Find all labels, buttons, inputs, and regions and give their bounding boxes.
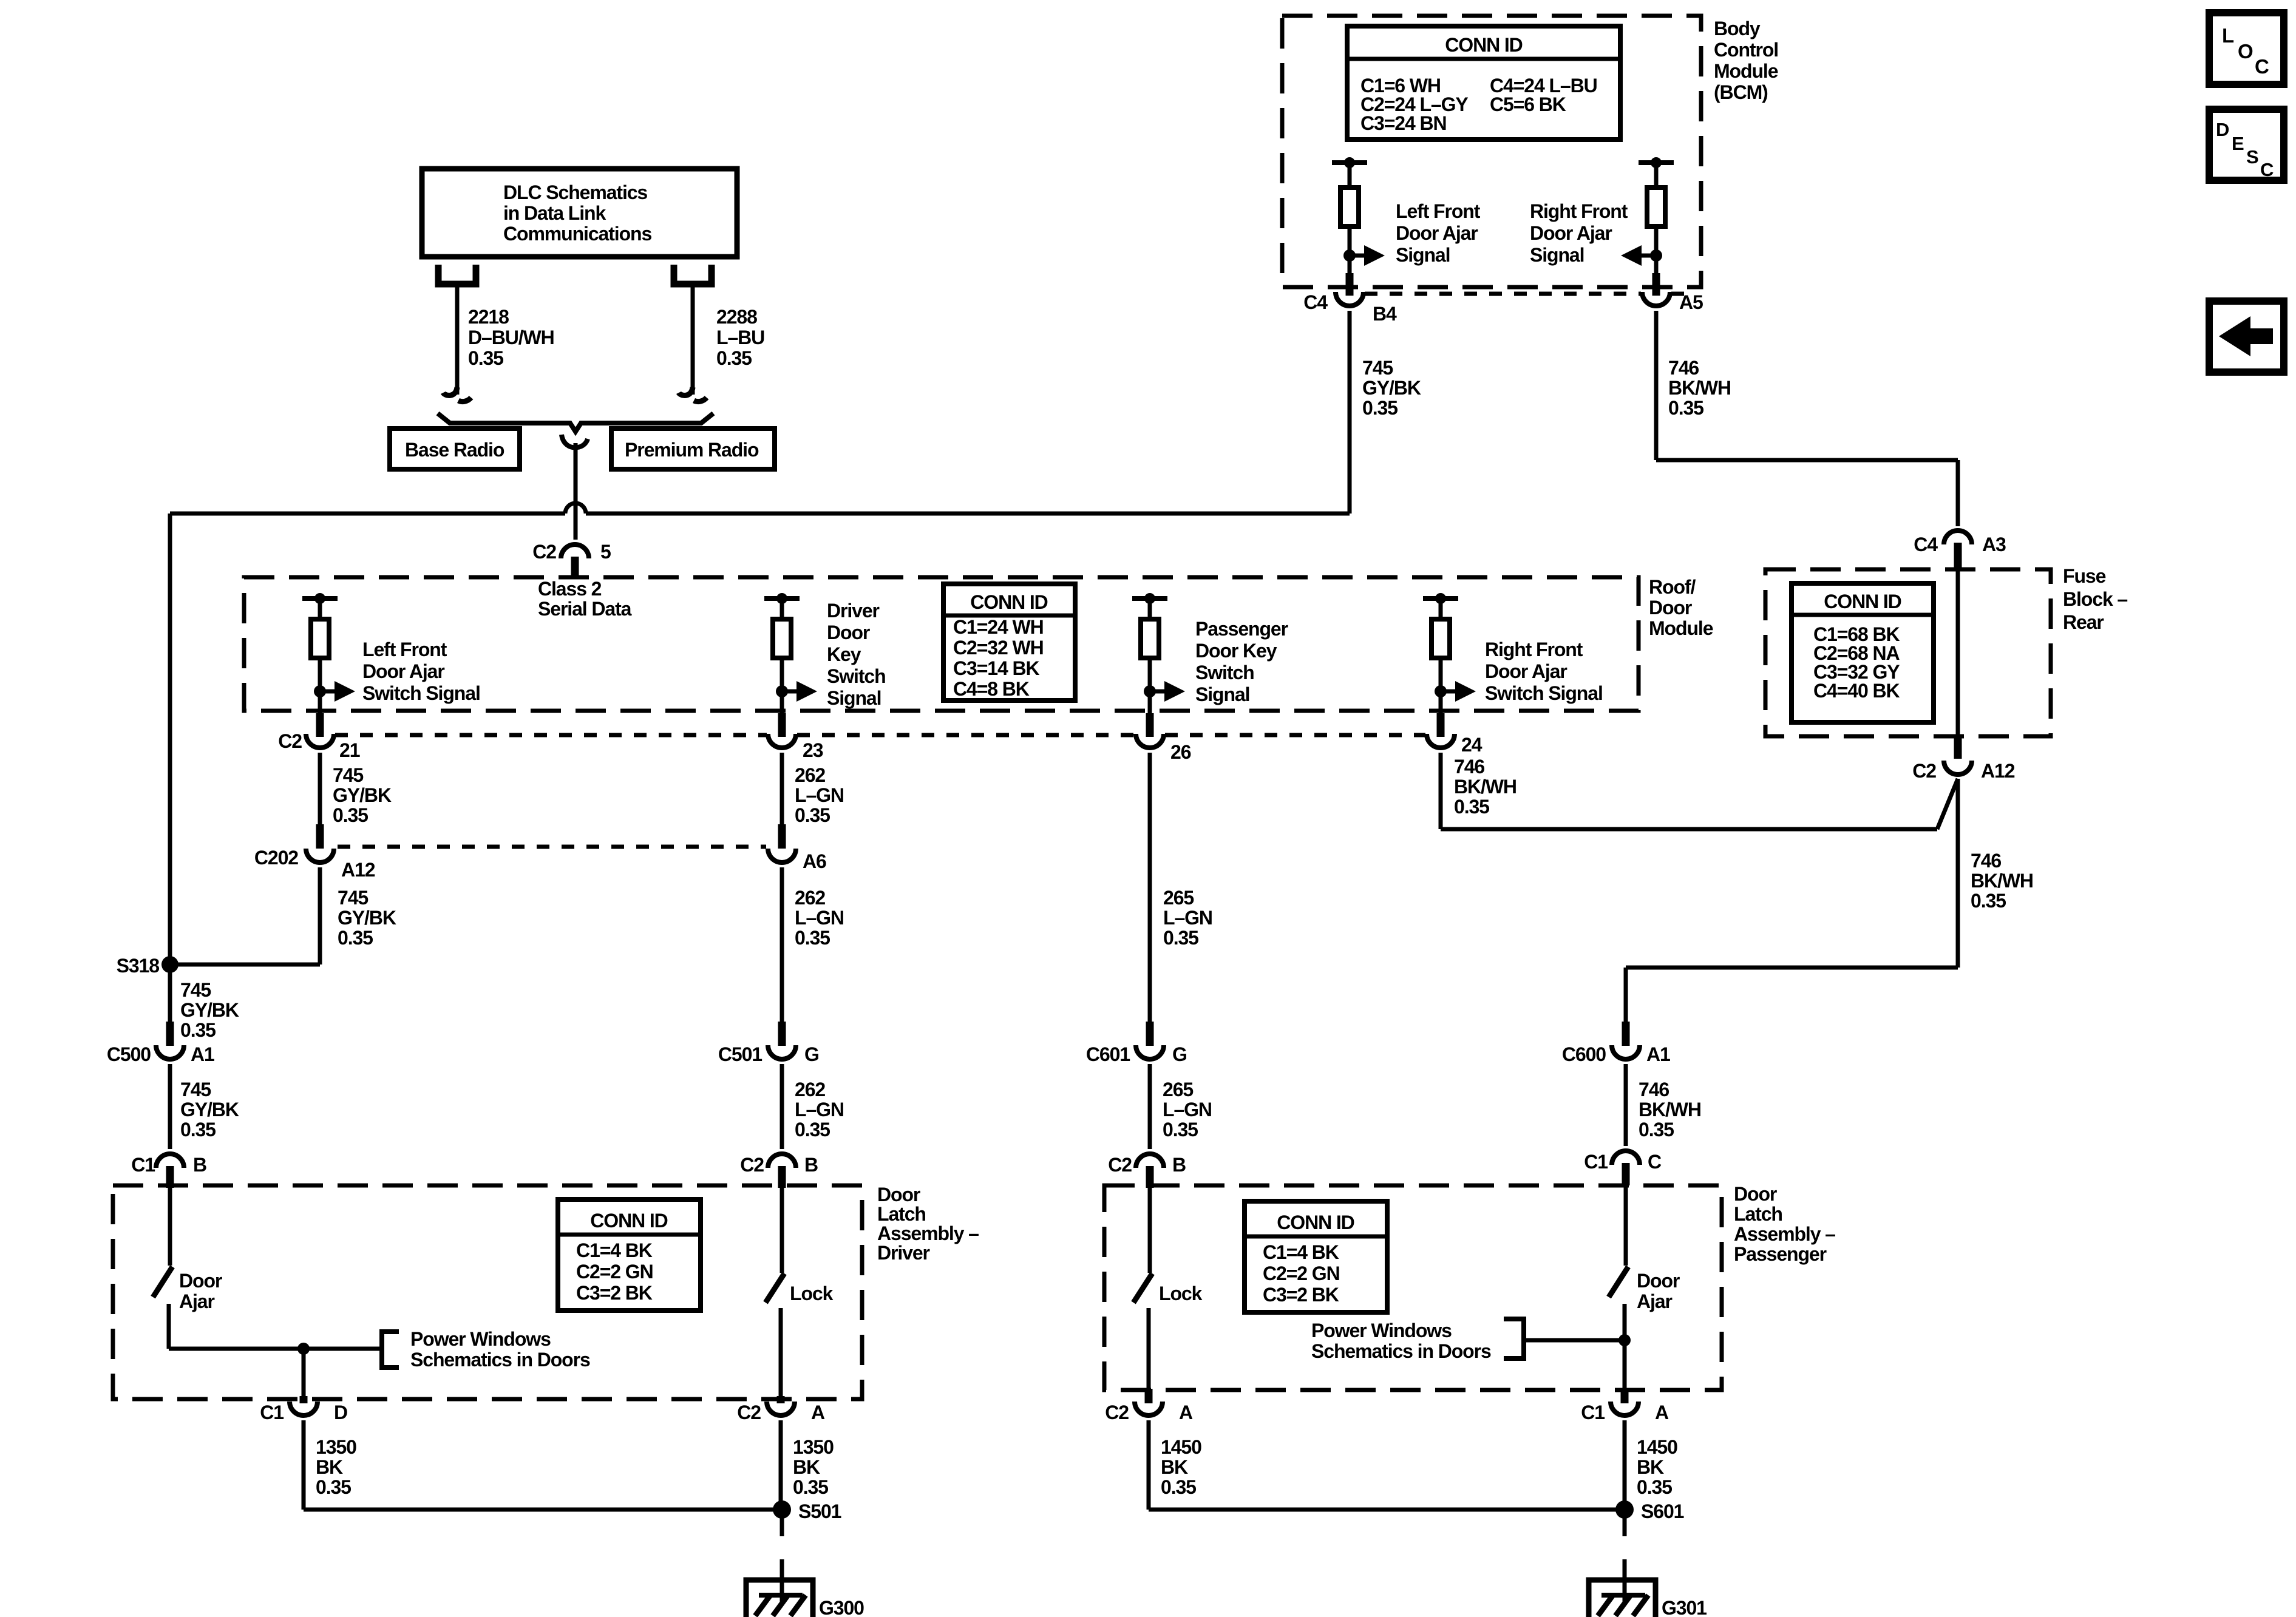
wire door ajar switch lower (passenger) bbox=[1623, 1304, 1627, 1390]
svg-text:Door Key: Door Key bbox=[1195, 640, 1277, 662]
connector C202 pin A6 bbox=[768, 849, 796, 863]
connector pin 23 (module) bbox=[768, 734, 796, 748]
svg-text:A12: A12 bbox=[341, 859, 375, 881]
svg-text:Door: Door bbox=[1649, 597, 1692, 619]
svg-text:Power Windows: Power Windows bbox=[1311, 1320, 1452, 1341]
svg-text:C2: C2 bbox=[737, 1402, 761, 1423]
svg-text:GY/BK: GY/BK bbox=[180, 1099, 239, 1120]
svg-text:Signal: Signal bbox=[827, 687, 881, 709]
svg-text:Door Ajar: Door Ajar bbox=[1396, 222, 1478, 244]
icon box DESC bbox=[2209, 109, 2284, 180]
wire passenger door key upper bbox=[1148, 598, 1152, 619]
svg-text:Driver: Driver bbox=[827, 600, 880, 622]
svg-text:0.35: 0.35 bbox=[716, 347, 752, 369]
svg-text:745: 745 bbox=[333, 764, 363, 786]
svg-text:Left Front: Left Front bbox=[362, 639, 447, 660]
svg-text:BK: BK bbox=[793, 1456, 820, 1478]
svg-text:O: O bbox=[2238, 40, 2253, 63]
wire end hook left bbox=[443, 387, 457, 395]
svg-text:0.35: 0.35 bbox=[468, 347, 503, 369]
svg-text:C1=4 BK: C1=4 BK bbox=[1263, 1241, 1339, 1263]
connector C2 pin A12 (fuse block) bbox=[1944, 761, 1972, 775]
module CONN ID header separator bbox=[943, 614, 1075, 618]
svg-text:746: 746 bbox=[1668, 357, 1699, 379]
connector pin 26 (module) bbox=[1136, 734, 1164, 748]
pin stub A1 (C600) bbox=[1622, 1022, 1630, 1046]
svg-text:Roof/: Roof/ bbox=[1649, 576, 1696, 598]
svg-text:A: A bbox=[811, 1402, 825, 1423]
connector C601 pin G bbox=[1136, 1045, 1164, 1059]
wire 745 bus drop to S318 bbox=[168, 514, 172, 964]
svg-text:0.35: 0.35 bbox=[795, 927, 830, 949]
svg-text:Serial Data: Serial Data bbox=[538, 598, 632, 620]
junction left front door ajar bbox=[314, 685, 326, 697]
svg-text:Door Ajar: Door Ajar bbox=[1485, 660, 1567, 682]
svg-text:21: 21 bbox=[339, 739, 360, 761]
svg-text:Right Front: Right Front bbox=[1485, 639, 1583, 660]
svg-text:CONN ID: CONN ID bbox=[970, 591, 1047, 613]
connector C4 pin A3 (fuse block) bbox=[1944, 531, 1972, 544]
svg-text:746: 746 bbox=[1454, 756, 1484, 778]
svg-text:Control: Control bbox=[1714, 39, 1778, 61]
svg-text:E: E bbox=[2232, 133, 2244, 154]
connector C2 pin A (driver latch) bbox=[767, 1402, 795, 1415]
svg-text:C1=4 BK: C1=4 BK bbox=[576, 1239, 653, 1261]
pin stub A1 (C500) bbox=[166, 1022, 174, 1046]
svg-text:Door Ajar: Door Ajar bbox=[362, 660, 444, 682]
wire 745 21 to C202 bbox=[318, 753, 322, 824]
wire right front door ajar lower bbox=[1439, 658, 1443, 713]
arrow right front door ajar switch signal bbox=[1441, 690, 1455, 694]
tee top right front door ajar branch bbox=[1423, 596, 1458, 601]
box Roof/Door Module dashed bbox=[244, 577, 1639, 711]
svg-text:BK/WH: BK/WH bbox=[1639, 1099, 1701, 1120]
switch blade Door Ajar (passenger) bbox=[1609, 1267, 1628, 1297]
resistor BCM left (door ajar pull-up) bbox=[1340, 188, 1359, 226]
wire 265 26 to C601 bbox=[1148, 753, 1152, 1022]
wire door ajar switch lower (driver) bbox=[167, 1304, 171, 1349]
svg-text:C600: C600 bbox=[1562, 1043, 1606, 1065]
ground G300 bbox=[746, 1580, 813, 1617]
connector pin 24 (module) bbox=[1427, 734, 1455, 748]
wire 745 bus right segment bbox=[586, 512, 1350, 516]
svg-text:23: 23 bbox=[803, 739, 823, 761]
svg-text:CONN ID: CONN ID bbox=[1824, 591, 1901, 612]
arrow Right Front Door Ajar Signal bbox=[1642, 254, 1656, 258]
svg-text:Signal: Signal bbox=[1530, 244, 1584, 266]
svg-text:Door: Door bbox=[1637, 1270, 1680, 1292]
svg-text:Right Front: Right Front bbox=[1530, 200, 1628, 222]
svg-text:L–GN: L–GN bbox=[795, 907, 844, 929]
svg-text:C2=2 GN: C2=2 GN bbox=[576, 1261, 653, 1283]
svg-text:BK/WH: BK/WH bbox=[1454, 776, 1517, 798]
svg-text:D: D bbox=[2216, 119, 2229, 140]
wire door ajar switch upper (driver) bbox=[168, 1185, 172, 1266]
svg-text:B: B bbox=[804, 1154, 818, 1176]
arrow driver door key switch signal bbox=[782, 690, 796, 694]
wire 745 bus riser to B4 bbox=[1348, 311, 1352, 514]
svg-text:C4=8 BK: C4=8 BK bbox=[953, 678, 1030, 700]
pin stub C2/5 bbox=[571, 557, 579, 576]
svg-text:C501: C501 bbox=[718, 1043, 762, 1065]
svg-text:B4: B4 bbox=[1373, 303, 1397, 325]
fuse CONN ID header separator bbox=[1792, 613, 1934, 617]
connector C202 pin A12 bbox=[306, 849, 334, 863]
box driver latch CONN ID bbox=[558, 1199, 701, 1310]
wire 265 C601 to C2/B bbox=[1148, 1064, 1152, 1149]
svg-text:C3=2 BK: C3=2 BK bbox=[1263, 1284, 1339, 1306]
connector C4 pin B4 (BCM) bbox=[1336, 292, 1364, 306]
BCM CONN ID header separator bbox=[1347, 57, 1620, 61]
svg-text:Door Ajar: Door Ajar bbox=[1530, 222, 1612, 244]
box fuse CONN ID bbox=[1792, 583, 1934, 722]
svg-text:Block –: Block – bbox=[2063, 588, 2127, 610]
resistor right front door ajar switch branch bbox=[1432, 619, 1450, 658]
svg-text:745: 745 bbox=[338, 887, 368, 909]
tee top passenger door key branch bbox=[1132, 596, 1167, 601]
svg-text:G300: G300 bbox=[819, 1597, 864, 1617]
connector C2 pin 21 (module) bbox=[306, 734, 334, 748]
svg-text:262: 262 bbox=[795, 887, 825, 909]
resistor BCM right (door ajar pull-up) bbox=[1647, 188, 1665, 226]
svg-text:745: 745 bbox=[1362, 357, 1393, 379]
box Fuse Block - Rear dashed bbox=[1765, 569, 2051, 736]
driver latch CONN ID header separator bbox=[558, 1233, 701, 1237]
wire 746 down to C4/A3 bbox=[1956, 460, 1960, 526]
connector bracket right (DLC lead 2288) bbox=[674, 265, 712, 284]
svg-text:Signal: Signal bbox=[1396, 244, 1450, 266]
icon box back arrow bbox=[2209, 301, 2284, 372]
pin stub B lock (driver latch) bbox=[778, 1166, 786, 1188]
svg-text:Body: Body bbox=[1714, 18, 1761, 39]
svg-text:A3: A3 bbox=[1982, 534, 2006, 555]
pin stub G (C601) bbox=[1146, 1022, 1154, 1046]
wire 1450 C2/A to S601 bbox=[1147, 1420, 1151, 1510]
svg-text:745: 745 bbox=[180, 979, 211, 1001]
svg-text:Power Windows: Power Windows bbox=[410, 1328, 551, 1350]
wire 2288 L-BU bbox=[691, 284, 695, 395]
wire 745 S318 to C500 bbox=[168, 964, 172, 1022]
connector C2 pin B (driver latch) bbox=[768, 1154, 796, 1168]
wire 745 S318 branch horizontal bbox=[170, 963, 320, 967]
pin stub 26 bbox=[1146, 713, 1154, 737]
pin stub A (C1 passenger) bbox=[1621, 1389, 1629, 1403]
svg-text:Door: Door bbox=[827, 622, 870, 643]
wire lock switch upper (driver) bbox=[780, 1188, 784, 1273]
svg-text:L–GN: L–GN bbox=[1163, 907, 1212, 929]
junction door ajar / power windows tap (passenger) bbox=[1618, 1334, 1631, 1346]
wire 1350 C1/D to S501 bbox=[302, 1420, 306, 1510]
wire S501 to ground lower bbox=[780, 1559, 784, 1602]
svg-text:BK: BK bbox=[1161, 1456, 1188, 1478]
svg-text:D: D bbox=[334, 1402, 347, 1423]
svg-text:Key: Key bbox=[827, 643, 861, 665]
svg-text:L–GN: L–GN bbox=[795, 1099, 844, 1120]
bracket power windows (passenger) bbox=[1504, 1319, 1524, 1358]
icon back arrow bbox=[2219, 316, 2273, 356]
svg-text:0.35: 0.35 bbox=[1362, 397, 1398, 419]
svg-text:0.35: 0.35 bbox=[180, 1019, 216, 1041]
wire 262 23 to A6 bbox=[780, 753, 784, 824]
svg-text:(BCM): (BCM) bbox=[1714, 81, 1768, 103]
svg-text:A12: A12 bbox=[1981, 760, 2015, 782]
wire 746 C600 to C1/C bbox=[1624, 1064, 1628, 1146]
pin stub A (C2 driver) bbox=[777, 1396, 785, 1403]
svg-text:26: 26 bbox=[1170, 741, 1191, 763]
svg-text:GY/BK: GY/BK bbox=[180, 999, 239, 1021]
svg-text:C601: C601 bbox=[1086, 1043, 1130, 1065]
svg-text:BK: BK bbox=[316, 1456, 343, 1478]
svg-text:C1=24 WH: C1=24 WH bbox=[953, 616, 1044, 638]
switch blade Door Ajar (driver) bbox=[153, 1267, 172, 1297]
tee top left BCM branch bbox=[1332, 160, 1367, 165]
svg-text:C2: C2 bbox=[1105, 1402, 1129, 1423]
wire radio to C2 pin 5 bbox=[574, 443, 578, 540]
wire BCM right branch lower bbox=[1654, 226, 1659, 273]
svg-text:Switch Signal: Switch Signal bbox=[1485, 682, 1603, 704]
wire end hook right bbox=[679, 387, 693, 395]
resistor left front door ajar switch branch bbox=[311, 619, 329, 658]
pin stub A12 (C202) bbox=[316, 824, 324, 849]
svg-text:Module: Module bbox=[1714, 60, 1778, 82]
svg-text:C4: C4 bbox=[1914, 534, 1938, 555]
svg-text:C3=24 BN: C3=24 BN bbox=[1360, 112, 1447, 134]
svg-text:Lock: Lock bbox=[1159, 1283, 1203, 1304]
svg-text:0.35: 0.35 bbox=[1668, 397, 1703, 419]
wire right front door ajar upper bbox=[1439, 598, 1443, 619]
wire left front door ajar lower bbox=[318, 658, 322, 713]
svg-text:Switch: Switch bbox=[827, 665, 886, 687]
pin stub A5 bbox=[1652, 273, 1660, 296]
svg-text:Communications: Communications bbox=[503, 223, 651, 245]
wire 262 A6 to C501 bbox=[780, 867, 784, 1022]
svg-text:C2: C2 bbox=[1912, 760, 1936, 782]
wire S501 to ground upper bbox=[780, 1517, 784, 1536]
svg-text:Schematics in Doors: Schematics in Doors bbox=[1311, 1340, 1491, 1362]
svg-text:262: 262 bbox=[795, 1079, 825, 1100]
svg-text:C5=6 BK: C5=6 BK bbox=[1490, 93, 1566, 115]
box Door Latch Assembly Driver dashed bbox=[113, 1185, 862, 1399]
wire BCM right branch upper bbox=[1654, 163, 1659, 188]
svg-text:746: 746 bbox=[1971, 850, 2001, 872]
svg-text:Passenger: Passenger bbox=[1734, 1243, 1827, 1265]
box passenger latch CONN ID bbox=[1245, 1201, 1387, 1312]
svg-text:0.35: 0.35 bbox=[1639, 1119, 1674, 1141]
svg-text:Assembly –: Assembly – bbox=[1734, 1223, 1835, 1245]
wire 746 down to C600 bbox=[1624, 968, 1628, 1022]
svg-text:265: 265 bbox=[1163, 1079, 1193, 1100]
svg-text:2218: 2218 bbox=[468, 306, 509, 328]
wire 746 from A5 down bbox=[1654, 311, 1659, 460]
brace center hook bbox=[562, 435, 588, 447]
svg-text:C: C bbox=[2255, 55, 2269, 78]
pin stub C (passenger latch) bbox=[1622, 1163, 1630, 1185]
connector C2 pin B (passenger latch) bbox=[1136, 1154, 1164, 1168]
svg-text:1450: 1450 bbox=[1161, 1436, 1201, 1458]
wire BCM left branch upper bbox=[1348, 163, 1352, 188]
connector C1 pin C (passenger latch) bbox=[1612, 1151, 1640, 1165]
svg-text:265: 265 bbox=[1163, 887, 1194, 909]
svg-text:in Data Link: in Data Link bbox=[503, 202, 606, 224]
pin stub D (C1 driver) bbox=[300, 1396, 308, 1403]
junction driver door key bbox=[776, 685, 788, 697]
wire to power windows tap (driver) bbox=[169, 1347, 382, 1351]
connector bracket left (DLC lead 2218) bbox=[438, 265, 476, 284]
junction door ajar / C1-D drop (driver) bbox=[297, 1343, 310, 1355]
svg-text:Lock: Lock bbox=[790, 1283, 834, 1304]
switch blade Lock (passenger) bbox=[1133, 1273, 1152, 1303]
wire lock switch lower (driver) bbox=[779, 1308, 783, 1399]
wire S601 to ground upper bbox=[1623, 1517, 1627, 1536]
switch blade Lock (driver) bbox=[766, 1273, 784, 1303]
wire 1450 C1/A to S601 bbox=[1623, 1420, 1627, 1510]
svg-text:Module: Module bbox=[1649, 617, 1713, 639]
svg-text:G: G bbox=[804, 1043, 819, 1065]
splice S601 bbox=[1615, 1500, 1634, 1519]
passenger latch CONN ID header separator bbox=[1245, 1235, 1387, 1239]
svg-text:CONN ID: CONN ID bbox=[590, 1210, 667, 1232]
svg-text:Rear: Rear bbox=[2063, 611, 2104, 633]
wire 745 C202 to S318 riser bbox=[318, 867, 322, 964]
svg-text:C3=2 BK: C3=2 BK bbox=[576, 1282, 653, 1304]
svg-text:L–BU: L–BU bbox=[716, 327, 764, 348]
svg-text:GY/BK: GY/BK bbox=[333, 784, 392, 806]
svg-text:C1: C1 bbox=[1584, 1151, 1608, 1173]
icon box LOC bbox=[2209, 13, 2284, 84]
svg-text:0.35: 0.35 bbox=[793, 1476, 828, 1498]
svg-text:GY/BK: GY/BK bbox=[338, 907, 396, 929]
svg-text:A1: A1 bbox=[1646, 1043, 1670, 1065]
wire driver door key lower bbox=[780, 658, 784, 713]
svg-text:Class 2: Class 2 bbox=[538, 578, 602, 600]
svg-text:C: C bbox=[1648, 1151, 1662, 1173]
splice S501 bbox=[773, 1500, 791, 1519]
connector C501 pin G bbox=[768, 1045, 796, 1059]
wire 745 C500 to C1/B bbox=[168, 1064, 172, 1149]
svg-text:746: 746 bbox=[1639, 1079, 1669, 1100]
svg-text:Ajar: Ajar bbox=[179, 1290, 214, 1312]
svg-text:S501: S501 bbox=[798, 1500, 841, 1522]
connector pin A5 (BCM) bbox=[1642, 292, 1670, 306]
box Premium Radio bbox=[611, 429, 775, 469]
svg-text:Door: Door bbox=[1734, 1183, 1777, 1205]
svg-text:C3=14 BK: C3=14 BK bbox=[953, 657, 1039, 679]
pin stub B (driver latch) bbox=[166, 1166, 174, 1188]
wire power windows tap (passenger) bbox=[1524, 1338, 1625, 1343]
wire lock switch lower (passenger) bbox=[1147, 1308, 1151, 1390]
svg-text:C1: C1 bbox=[260, 1402, 284, 1423]
wire drop to C1/D bbox=[302, 1349, 306, 1399]
svg-text:C4: C4 bbox=[1303, 291, 1328, 313]
svg-text:A5: A5 bbox=[1679, 291, 1703, 313]
svg-text:0.35: 0.35 bbox=[1637, 1476, 1672, 1498]
svg-text:BK: BK bbox=[1637, 1456, 1664, 1478]
pin stub A6 bbox=[778, 824, 786, 849]
svg-text:24: 24 bbox=[1461, 734, 1483, 756]
svg-text:745: 745 bbox=[180, 1079, 211, 1100]
wire 745 bus left segment bbox=[170, 512, 565, 516]
svg-text:S601: S601 bbox=[1641, 1500, 1684, 1522]
ground G301 bbox=[1589, 1580, 1656, 1617]
svg-text:G301: G301 bbox=[1662, 1597, 1707, 1617]
svg-text:A: A bbox=[1655, 1402, 1669, 1423]
bracket power windows (driver) bbox=[382, 1332, 399, 1368]
svg-text:Door: Door bbox=[877, 1184, 920, 1205]
pin stub A12 bbox=[1954, 736, 1962, 759]
splice S318 bbox=[161, 956, 178, 973]
svg-text:Left Front: Left Front bbox=[1396, 200, 1481, 222]
wire 746 horizontal to C600 bbox=[1626, 966, 1958, 970]
svg-text:1450: 1450 bbox=[1637, 1436, 1677, 1458]
wire 746 horizontal to A12 bbox=[1441, 827, 1937, 832]
svg-text:D–BU/WH: D–BU/WH bbox=[468, 327, 554, 348]
svg-text:C500: C500 bbox=[107, 1043, 151, 1065]
wire passenger door key lower bbox=[1148, 658, 1152, 713]
svg-text:Passenger: Passenger bbox=[1195, 618, 1288, 640]
wire 1350 to S501 bbox=[304, 1508, 781, 1512]
svg-text:0.35: 0.35 bbox=[1163, 927, 1198, 949]
svg-text:C2: C2 bbox=[532, 541, 556, 563]
box Body Control Module (BCM) dashed bbox=[1282, 16, 1701, 287]
wire S601 to ground lower bbox=[1623, 1559, 1627, 1602]
connector C600 pin A1 bbox=[1612, 1045, 1640, 1059]
svg-text:Premium Radio: Premium Radio bbox=[625, 439, 759, 461]
C202 connector face dotted row bbox=[338, 845, 766, 849]
svg-text:Base Radio: Base Radio bbox=[405, 439, 504, 461]
svg-text:Latch: Latch bbox=[877, 1203, 926, 1225]
svg-text:262: 262 bbox=[795, 764, 825, 786]
svg-text:B: B bbox=[193, 1154, 206, 1176]
resistor driver door key switch branch bbox=[773, 619, 791, 658]
svg-text:C2=32 WH: C2=32 WH bbox=[953, 637, 1044, 659]
box Base Radio bbox=[390, 429, 520, 469]
svg-text:Driver: Driver bbox=[877, 1242, 930, 1264]
wire driver door key upper bbox=[780, 598, 784, 619]
svg-text:C202: C202 bbox=[254, 847, 298, 869]
BCM connector face dotted row bbox=[1365, 292, 1641, 296]
svg-text:CONN ID: CONN ID bbox=[1277, 1212, 1354, 1233]
tee top left front door ajar branch bbox=[302, 596, 338, 601]
box Door Latch Assembly Passenger dashed bbox=[1104, 1185, 1722, 1390]
svg-text:0.35: 0.35 bbox=[338, 927, 373, 949]
wire 746 through fuse block bbox=[1956, 569, 1960, 736]
junction BCM right bbox=[1650, 249, 1662, 262]
svg-text:S: S bbox=[2246, 146, 2258, 168]
svg-text:C2: C2 bbox=[278, 730, 302, 752]
svg-text:L–GN: L–GN bbox=[795, 784, 844, 806]
svg-text:0.35: 0.35 bbox=[316, 1476, 351, 1498]
junction passenger door key bbox=[1144, 685, 1156, 697]
pin stub B lock (passenger latch) bbox=[1146, 1166, 1154, 1188]
wire 2218 D-BU/WH bbox=[455, 284, 460, 395]
wire 746 24 down bbox=[1439, 753, 1443, 829]
connector C2 pin 5 (radio) bbox=[561, 544, 589, 558]
wire 1350 C2/A to S501 bbox=[779, 1420, 783, 1510]
svg-text:Fuse: Fuse bbox=[2063, 565, 2106, 587]
svg-text:Signal: Signal bbox=[1195, 683, 1249, 705]
wire BCM left branch lower bbox=[1348, 226, 1352, 273]
svg-text:2288: 2288 bbox=[716, 306, 757, 328]
brace options Base/Premium Radio bbox=[438, 413, 713, 432]
svg-text:C: C bbox=[2260, 159, 2274, 180]
svg-text:0.35: 0.35 bbox=[1163, 1119, 1198, 1141]
svg-text:C2=2 GN: C2=2 GN bbox=[1263, 1263, 1340, 1284]
svg-text:Assembly –: Assembly – bbox=[877, 1222, 979, 1244]
svg-text:Door: Door bbox=[179, 1270, 222, 1292]
arrow passenger door key switch signal bbox=[1150, 690, 1164, 694]
svg-text:1350: 1350 bbox=[316, 1436, 356, 1458]
module connector face dotted row bbox=[335, 733, 767, 737]
